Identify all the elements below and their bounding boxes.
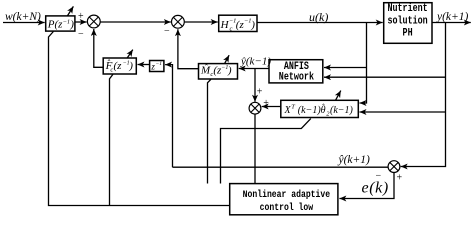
svg-text:+: +: [78, 11, 84, 22]
svg-text:P(z: P(z: [47, 19, 63, 31]
svg-text:−1: −1: [156, 61, 163, 67]
svg-text:T: T: [291, 104, 295, 111]
svg-text:solution: solution: [387, 15, 427, 27]
svg-text:Nutrient: Nutrient: [387, 2, 427, 14]
svg-text:+: +: [257, 87, 263, 98]
svg-text:e(k): e(k): [362, 180, 389, 197]
svg-text:Nonlinear adaptive: Nonlinear adaptive: [243, 188, 331, 200]
svg-text:): ): [69, 19, 74, 31]
svg-text:c: c: [230, 25, 233, 32]
svg-text:ŷ(k+1): ŷ(k+1): [338, 154, 371, 166]
svg-text:(k−1): (k−1): [330, 105, 354, 116]
svg-text:): ): [128, 60, 133, 72]
svg-text:w(k+N): w(k+N): [5, 11, 41, 23]
svg-text:PH: PH: [403, 26, 413, 38]
svg-text:u(k): u(k): [309, 10, 328, 24]
svg-text:control low: control low: [260, 201, 314, 213]
svg-text:−1: −1: [63, 19, 71, 26]
svg-text:−: −: [164, 26, 170, 37]
svg-text:): ): [250, 19, 255, 31]
svg-text:ŷ(k−1): ŷ(k−1): [240, 56, 271, 68]
svg-text:): ): [227, 65, 232, 77]
svg-text:+: +: [397, 173, 403, 184]
svg-text:+: +: [263, 98, 269, 109]
svg-text:ˆ: ˆ: [322, 102, 325, 111]
svg-text:(z: (z: [114, 60, 123, 72]
svg-text:X: X: [284, 105, 292, 116]
svg-text:Network: Network: [279, 71, 314, 83]
svg-text:−: −: [78, 29, 84, 40]
svg-text:y(k+1): y(k+1): [436, 11, 469, 23]
